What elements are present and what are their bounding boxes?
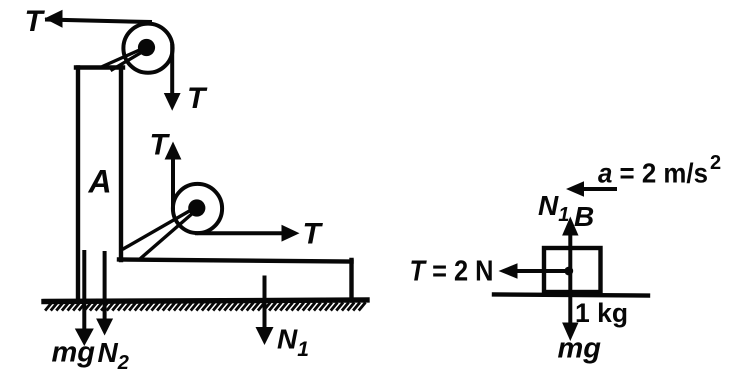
svg-text:1 kg: 1 kg: [575, 298, 628, 328]
force arrow T downward from top pulley: [164, 93, 181, 111]
svg-text:a = 2 m/s: a = 2 m/s: [598, 158, 708, 189]
pulley P2 (middle): [173, 184, 222, 233]
wire: rope right from middle pulley: [197, 231, 283, 235]
svg-text:mg: mg: [558, 333, 602, 365]
force arrow T rightward from middle pulley: [282, 225, 300, 242]
ground hatching: [46, 304, 365, 310]
svg-text:2: 2: [710, 152, 721, 174]
svg-text:mg: mg: [52, 337, 96, 369]
ground line: [44, 300, 367, 302]
force arrow N1 up from block center: [562, 217, 578, 272]
force arrow mg (column weight): [75, 252, 94, 346]
force arrow N1 (normal under base): [256, 278, 274, 346]
acceleration arrow (points left): [566, 181, 615, 197]
svg-text:T: T: [150, 129, 171, 162]
surface line under block: [494, 295, 648, 296]
base of L-bracket: [119, 260, 352, 301]
force arrow mg down from block center: [562, 271, 578, 341]
bracket arm of middle pulley: [124, 208, 196, 259]
svg-text:N1: N1: [538, 190, 569, 226]
bracket arm of top pulley: [104, 48, 146, 70]
svg-text:N2: N2: [98, 337, 129, 374]
svg-text:T = 2 N: T = 2 N: [410, 256, 494, 288]
wire: rope up from middle pulley: [171, 160, 175, 210]
wire: rope from top pulley running left: [47, 20, 150, 23]
svg-text:T: T: [187, 82, 208, 115]
svg-text:N1: N1: [277, 324, 309, 362]
svg-text:A: A: [88, 164, 112, 200]
force arrow T left from block center: [499, 263, 571, 279]
force arrow T upward from middle pulley: [165, 142, 182, 160]
wire: rope down from top pulley: [170, 46, 174, 94]
pulley P1 (top): [123, 24, 172, 73]
center dot of block: [564, 267, 573, 276]
svg-text:B: B: [574, 201, 594, 232]
block B (1 kg): [544, 248, 601, 292]
force arrow T pulling left at top: [45, 10, 63, 28]
svg-text:T: T: [25, 5, 46, 38]
column A of L-bracket: [76, 68, 123, 302]
svg-text:T: T: [303, 218, 324, 251]
force arrow N2 (normal under column): [96, 253, 113, 336]
